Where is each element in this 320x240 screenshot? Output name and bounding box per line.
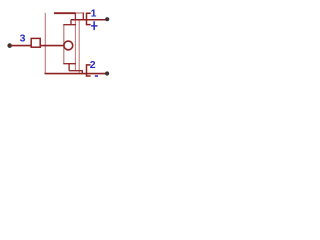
step vertical drop [81, 70, 83, 74]
minus polarity mark [95, 75, 98, 77]
plus polarity mark [91, 21, 98, 30]
bracket terminal 1 [87, 13, 91, 24]
bottom wire [45, 72, 107, 75]
bottom stub of body [68, 64, 70, 71]
step horizontal wire [69, 70, 82, 72]
circle of source symbol [64, 41, 73, 50]
svg-text:1: 1 [91, 8, 97, 20]
resistor body rectangle [63, 25, 76, 64]
svg-text:2: 2 [90, 59, 96, 71]
wire box to circle [40, 45, 64, 47]
second long vertical line [78, 20, 80, 74]
box on input lead [31, 38, 40, 47]
top lead wire [54, 12, 76, 14]
background [0, 0, 117, 91]
bracket terminal 2 [87, 65, 91, 76]
svg-text:3: 3 [20, 33, 26, 45]
thin top wire continuation [76, 12, 85, 14]
top wire to pin 1 [71, 19, 107, 21]
node dot pin 2 [105, 71, 109, 75]
long vertical line right side of body [74, 20, 76, 71]
top stub of body [70, 20, 72, 25]
node dot pin 3 [7, 43, 12, 48]
left vertical wire [44, 13, 46, 74]
vertical drop at top right corner [82, 13, 84, 20]
node dot pin 1 [105, 17, 109, 21]
wire pin3 to box [11, 45, 32, 47]
right side vertical of body upper dark segment [74, 13, 76, 20]
